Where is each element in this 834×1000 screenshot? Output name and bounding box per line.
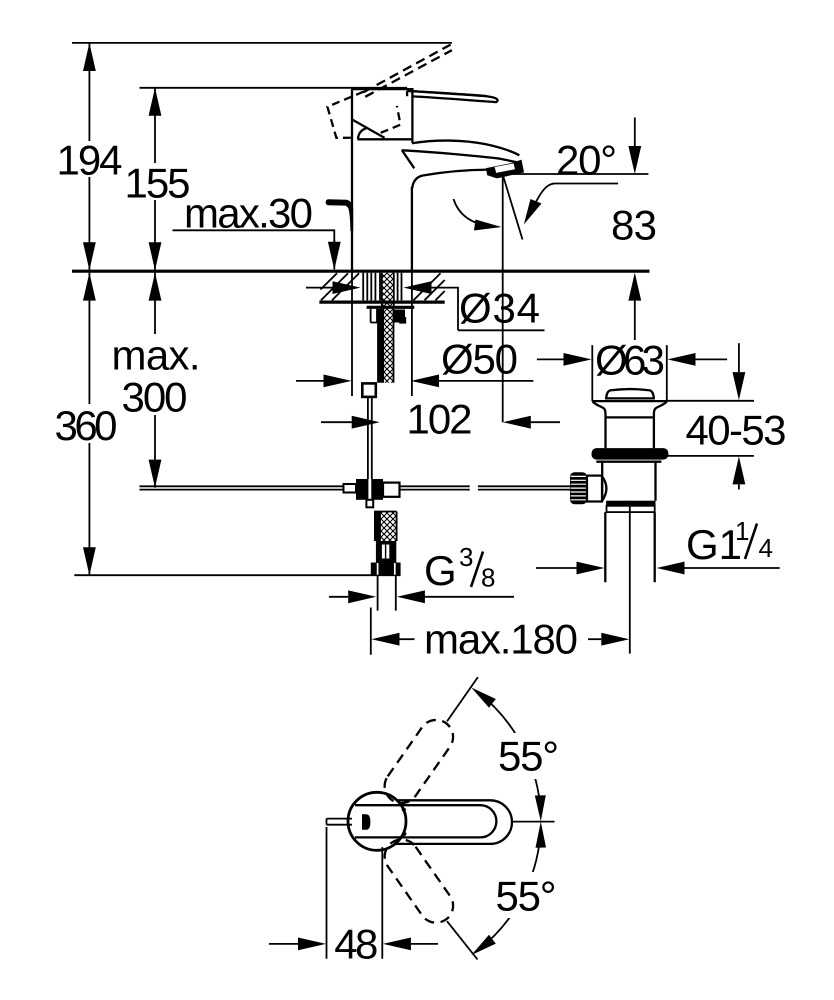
threaded stud crosshatch upper (382, 273, 394, 307)
48 extension lines (327, 827, 383, 959)
raised handle dashed lines (364, 45, 452, 97)
dia50 extension lines (352, 271, 412, 396)
arrowheads 194 (83, 43, 96, 71)
svg-text:83: 83 (611, 201, 657, 248)
centerline (629, 501, 631, 654)
hose connector (376, 541, 396, 563)
horizontal lever rod (140, 486, 571, 489)
svg-text:40-53: 40-53 (686, 407, 787, 454)
40-53 dim (738, 343, 740, 372)
svg-text:3: 3 (459, 542, 473, 572)
flex hose upper segment (377, 309, 383, 383)
G3/8 dim (329, 596, 348, 598)
neck rib (606, 416, 654, 418)
20 deg underline + curved leader (531, 184, 618, 213)
deck hatch right (414, 273, 445, 300)
flex hose lower segment (374, 512, 380, 542)
valve body sides (602, 462, 655, 501)
handle block (352, 89, 413, 143)
dia50 dim (296, 380, 324, 382)
vertical ref from aerator (502, 177, 504, 423)
inner lever capsule (355, 805, 496, 837)
G1 1/4 dim (536, 567, 577, 569)
svg-text:360: 360 (55, 402, 118, 449)
pin left (327, 819, 353, 825)
svg-text:Ø50: Ø50 (441, 336, 518, 383)
svg-text:55°: 55° (496, 873, 559, 920)
83 dim arrow top (634, 118, 636, 147)
tailpipe walls (605, 512, 654, 582)
logo mark (362, 814, 370, 830)
lower dashed lever position (378, 833, 460, 930)
hex nut (371, 563, 401, 576)
svg-text:155: 155 (125, 160, 191, 207)
collar white band (607, 506, 655, 512)
body right edge (411, 187, 413, 271)
dim line 155/max300 vertical (154, 88, 156, 488)
deck top line (72, 270, 650, 273)
valve cap (606, 389, 654, 398)
upper ray 55deg (447, 677, 478, 721)
svg-text:G: G (424, 547, 457, 594)
seal ring (592, 448, 669, 460)
svg-text:1: 1 (735, 516, 749, 546)
rod adjuster (362, 383, 376, 397)
supply pipe (378, 575, 396, 610)
handle lever (407, 91, 498, 102)
lower 55 arc (478, 827, 541, 950)
svg-text:55°: 55° (498, 733, 561, 780)
svg-text:max.: max. (112, 332, 201, 379)
TOPVIEW (269, 677, 568, 967)
svg-text:4: 4 (759, 533, 773, 563)
svg-text:Ø34: Ø34 (459, 285, 540, 332)
48 dim arrows (269, 943, 298, 945)
dia34 dim (306, 287, 333, 289)
pop-up lever knob (326, 199, 354, 231)
dia63 extension / rim sides (592, 345, 667, 401)
arrowhead 20deg leader (524, 199, 542, 225)
flare (593, 401, 667, 417)
faucet body circle (348, 792, 406, 850)
deck hatch left (321, 273, 360, 300)
DIMENSIONS-SIDE (55, 43, 658, 663)
collar dark band (606, 501, 655, 506)
outer lever capsule (395, 800, 512, 844)
spout left notch (402, 150, 414, 168)
svg-text:max.180: max.180 (424, 616, 578, 663)
ref line top (raised handle height) (72, 42, 452, 44)
svg-text:194: 194 (57, 137, 123, 184)
arrowheads max300 (149, 273, 162, 301)
POPUP-VALVE (536, 337, 787, 654)
83 dim arrow bottom (634, 301, 636, 340)
spout underside (412, 170, 488, 188)
flow arc under spout (454, 199, 492, 227)
flange line (596, 461, 661, 463)
dia63 dim arrows (537, 358, 564, 360)
washer under deck (367, 306, 415, 309)
junction dots (402, 808, 406, 812)
slanted 20deg line (503, 177, 522, 240)
svg-text:8: 8 (481, 563, 495, 593)
upper dashed lever position (378, 713, 460, 810)
102 dim (321, 421, 352, 423)
FAUCET-DRAWING (140, 45, 571, 611)
svg-text:20°: 20° (556, 137, 620, 184)
svg-text:300: 300 (122, 374, 188, 421)
aerator (487, 161, 523, 178)
knurled knob (570, 472, 587, 504)
deck bottom line (319, 301, 444, 304)
horizontal centerline ray (513, 821, 555, 823)
svg-text:Ø63: Ø63 (595, 337, 665, 384)
spout inner line (402, 150, 518, 162)
upper 55 arc (478, 692, 541, 816)
ref line 155 (handle height) (140, 87, 408, 89)
svg-text:102: 102 (407, 396, 473, 443)
rod clamp (356, 479, 383, 500)
ref line 360 bottom (74, 574, 400, 576)
svg-text:48: 48 (334, 921, 378, 968)
neck sides (606, 417, 654, 448)
shank wall lines in deck (363, 273, 380, 301)
knob neck (587, 476, 602, 502)
arrowhead max.30 (328, 242, 341, 270)
mounting nut (371, 309, 377, 323)
spout top (412, 141, 519, 156)
20 deg ref line A (503, 173, 648, 175)
halo 55 upper (492, 733, 568, 779)
arrowheads 155 (149, 88, 162, 116)
rim top line (592, 400, 667, 402)
lower ray 55deg (447, 921, 478, 959)
max.30 leader (173, 230, 335, 243)
svg-text:G1: G1 (686, 521, 742, 568)
pop-up rod (368, 397, 372, 480)
svg-text:max.30: max.30 (184, 190, 313, 237)
halo 55 lower (490, 872, 566, 918)
rod tip (366, 500, 373, 508)
dim line 194/360 vertical (88, 43, 90, 575)
max.180 dim (400, 638, 415, 640)
lowered handle dashed outline (327, 92, 400, 138)
arrowheads 360 (83, 273, 96, 301)
